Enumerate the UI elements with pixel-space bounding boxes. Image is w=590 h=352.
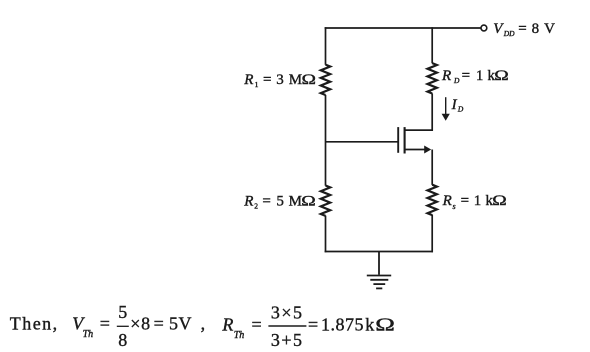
svg-text:=: = — [263, 72, 271, 88]
wire left branch top — [325, 27, 327, 65]
svg-text:k: k — [365, 314, 374, 334]
svg-text:Ω: Ω — [301, 192, 316, 208]
svg-text:Ω: Ω — [494, 67, 509, 83]
svg-text:Ω: Ω — [492, 192, 507, 208]
svg-text:M: M — [289, 193, 302, 209]
svg-text:5: 5 — [118, 302, 127, 322]
svg-text:M: M — [289, 72, 302, 88]
label RS value — [442, 192, 507, 211]
svg-text:5: 5 — [169, 313, 178, 333]
current arrow ID — [442, 97, 450, 121]
node VDD label — [493, 21, 555, 38]
svg-text:Th: Th — [234, 330, 245, 341]
label R2 value — [243, 192, 316, 210]
svg-text:8: 8 — [118, 330, 127, 350]
svg-text:R: R — [243, 72, 253, 88]
wire source down branch — [431, 150, 433, 185]
wire left branch bottom — [325, 216, 327, 253]
svg-text:3×5: 3×5 — [271, 303, 304, 323]
resistor R2 zigzag — [321, 186, 330, 216]
wire gate lead — [326, 141, 398, 143]
label R1 value — [243, 71, 316, 89]
svg-text:=: = — [462, 68, 470, 84]
svg-text:=: = — [308, 314, 318, 334]
resistor RS zigzag — [428, 185, 437, 215]
transistor Q1 source lead — [405, 149, 425, 151]
svg-text:1.875: 1.875 — [321, 314, 364, 334]
label RD value — [441, 67, 509, 85]
svg-text:=: = — [262, 193, 270, 209]
svg-text:=: = — [252, 314, 262, 334]
svg-text:,: , — [201, 313, 206, 333]
svg-text:=: = — [100, 313, 110, 333]
svg-text:R: R — [441, 68, 451, 84]
svg-text:s: s — [453, 202, 456, 211]
wire right branch top — [431, 27, 433, 63]
svg-text:=: = — [518, 21, 526, 37]
wire source lower branch — [431, 215, 433, 253]
svg-text:R: R — [243, 193, 253, 209]
svg-text:Then,: Then, — [10, 314, 59, 334]
svg-text:R: R — [221, 314, 233, 334]
wire bottom rail — [325, 251, 433, 253]
equation Then VTh — [10, 302, 205, 350]
svg-text:Ω: Ω — [302, 71, 317, 87]
svg-text:1: 1 — [476, 68, 484, 84]
wire left branch middle — [325, 95, 327, 186]
svg-text:=: = — [461, 193, 469, 209]
svg-text:3: 3 — [276, 72, 284, 88]
svg-text:×8: ×8 — [130, 313, 151, 333]
svg-text:D: D — [457, 105, 464, 114]
svg-text:DD: DD — [503, 29, 515, 38]
svg-text:D: D — [453, 76, 460, 85]
svg-text:1: 1 — [474, 193, 482, 209]
svg-text:I: I — [451, 97, 458, 113]
svg-text:8: 8 — [532, 21, 540, 37]
label ID — [451, 97, 464, 114]
ground — [367, 252, 391, 289]
svg-text:V: V — [544, 21, 555, 37]
svg-text:V: V — [493, 21, 504, 37]
wire top rail — [325, 27, 482, 29]
svg-text:V: V — [179, 313, 192, 333]
terminal VDD — [481, 25, 487, 31]
wire drain lead — [405, 93, 432, 130]
resistor RD zigzag — [428, 63, 437, 93]
svg-text:Th: Th — [83, 329, 94, 340]
equation RTh — [221, 303, 394, 350]
transistor Q1 channel bar — [404, 127, 406, 153]
svg-text:Ω: Ω — [375, 314, 395, 334]
svg-text:2: 2 — [254, 201, 258, 210]
svg-text:3+5: 3+5 — [271, 330, 304, 350]
svg-text:5: 5 — [276, 193, 284, 209]
resistor R1 zigzag — [321, 65, 330, 95]
svg-text:=: = — [154, 313, 164, 333]
transistor Q1 drain stub — [405, 129, 433, 131]
svg-text:1: 1 — [255, 80, 259, 89]
transistor Q1 gate bar — [397, 127, 399, 153]
svg-text:R: R — [442, 193, 452, 209]
transistor Q1 source arrowhead — [424, 146, 431, 154]
